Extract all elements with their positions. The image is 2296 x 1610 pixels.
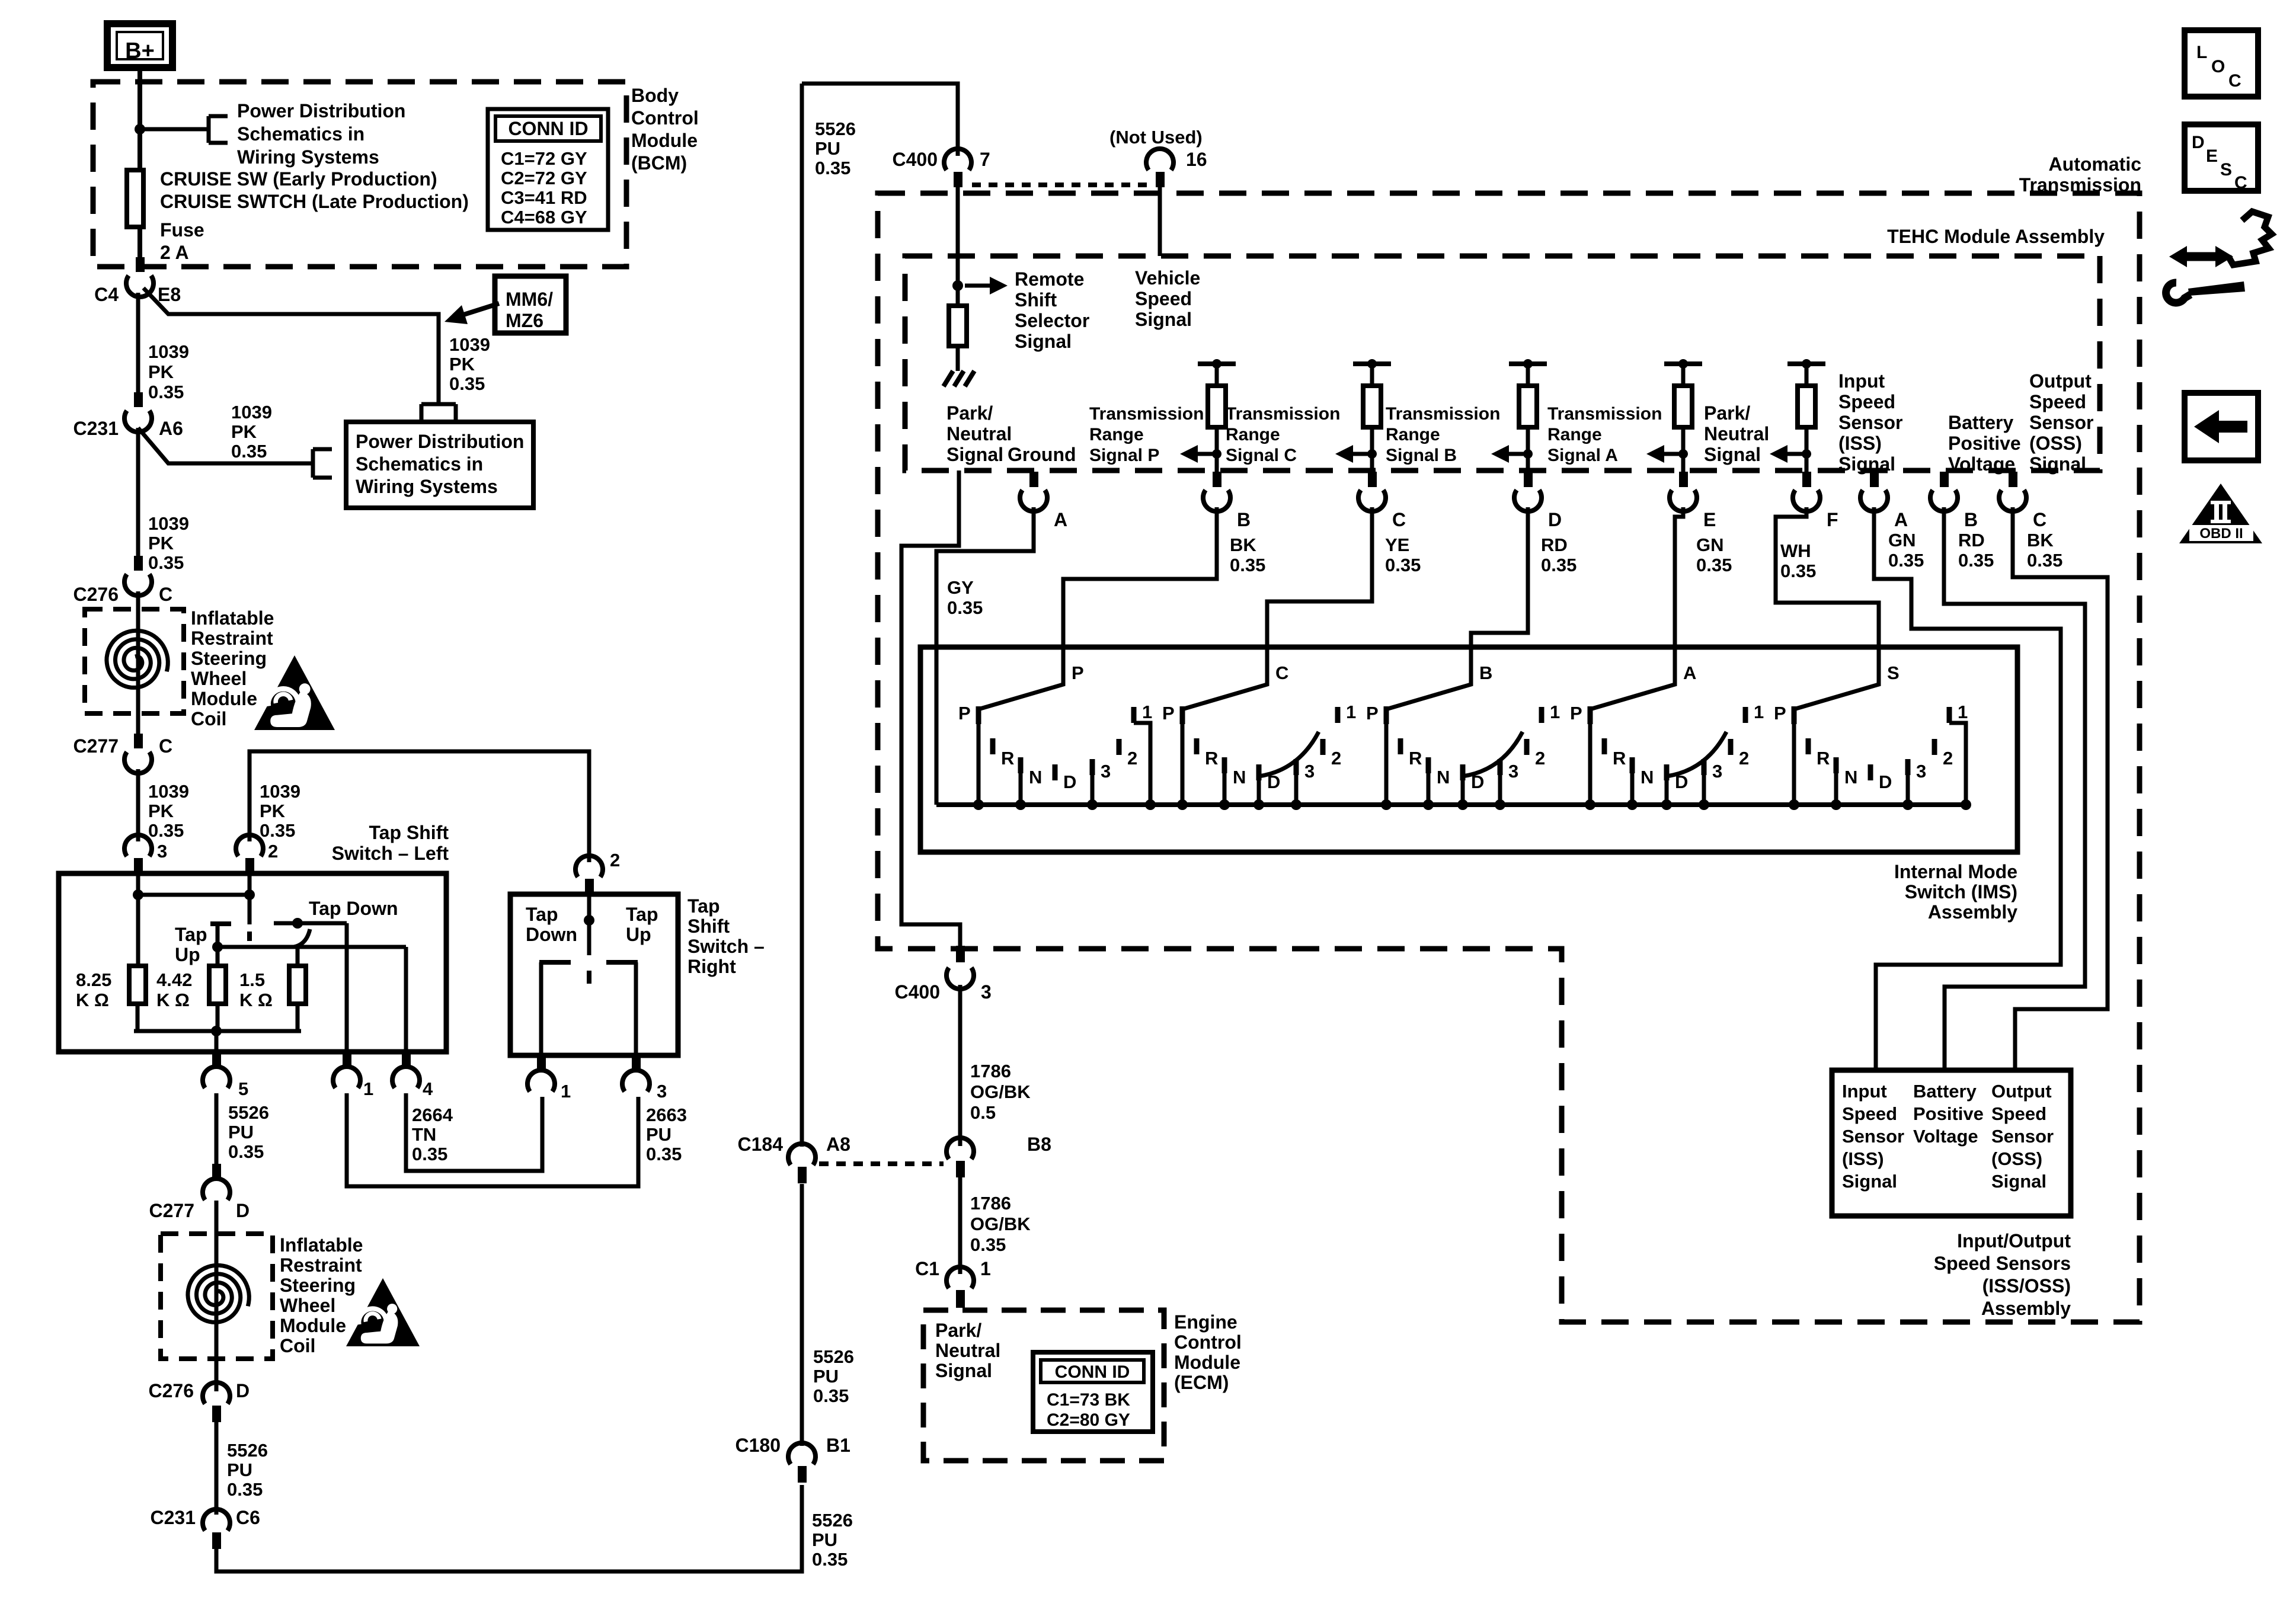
svg-text:0.35: 0.35 bbox=[2027, 550, 2062, 571]
svg-text:BK: BK bbox=[1230, 534, 1256, 555]
wire 1786 OG/BK 0.35 bbox=[958, 1177, 962, 1274]
svg-text:3: 3 bbox=[1304, 761, 1315, 782]
svg-text:E: E bbox=[1703, 509, 1716, 530]
resistor 1.5K bbox=[289, 966, 306, 1004]
svg-text:D: D bbox=[1063, 772, 1076, 792]
svg-text:Assembly: Assembly bbox=[1981, 1298, 2071, 1319]
svg-text:Shift: Shift bbox=[1015, 289, 1057, 311]
automatic transmission dashed box bbox=[878, 193, 2140, 1322]
svg-text:Up: Up bbox=[175, 944, 200, 965]
svg-text:3: 3 bbox=[1916, 761, 1926, 782]
svg-text:Tap: Tap bbox=[175, 924, 207, 945]
IMS switch group P bbox=[976, 706, 981, 724]
svg-text:Signal: Signal bbox=[1015, 331, 1072, 352]
TEHC pin E bbox=[1679, 472, 1688, 487]
svg-text:7: 7 bbox=[980, 149, 990, 170]
IMS switch group S bbox=[1792, 706, 1797, 724]
park neutral wire TEHC to C400-3 bbox=[901, 470, 960, 947]
svg-text:OG/BK: OG/BK bbox=[970, 1081, 1031, 1102]
wire left pin4 to right pin1 bbox=[406, 1093, 542, 1171]
svg-text:C1=73 BK: C1=73 BK bbox=[1047, 1390, 1130, 1410]
svg-text:R: R bbox=[1613, 748, 1626, 769]
wire YE pin C to IMS C bbox=[1267, 507, 1372, 647]
svg-text:Park/: Park/ bbox=[1704, 402, 1750, 424]
wire GN ISS to sensor box bbox=[1874, 507, 2061, 1070]
off-page pointer A6 branch bbox=[311, 449, 315, 478]
ground wire GY into IMS bbox=[936, 507, 1034, 805]
svg-text:Tap: Tap bbox=[526, 904, 558, 925]
connector pin 3 left switch bbox=[124, 835, 152, 856]
pin 5 drop bbox=[215, 1031, 219, 1052]
svg-text:Signal C: Signal C bbox=[1226, 446, 1297, 465]
svg-text:0.35: 0.35 bbox=[412, 1144, 447, 1164]
svg-text:Schematics in: Schematics in bbox=[356, 453, 483, 475]
svg-text:Right: Right bbox=[687, 956, 736, 977]
svg-text:(ISS): (ISS) bbox=[1842, 1148, 1884, 1169]
svg-text:0.35: 0.35 bbox=[1541, 555, 1576, 575]
arrow to remote shift label bbox=[990, 277, 1008, 295]
svg-text:Signal: Signal bbox=[1838, 453, 1895, 475]
wire RD pin D to IMS B bbox=[1471, 507, 1528, 647]
svg-text:1039: 1039 bbox=[148, 781, 189, 802]
dotted link pin7 to pin16 bbox=[972, 183, 1147, 187]
svg-text:D: D bbox=[236, 1200, 250, 1221]
BCM dashed box (Body Control Module) bbox=[93, 82, 626, 267]
svg-text:TEHC Module Assembly: TEHC Module Assembly bbox=[1887, 226, 2105, 247]
svg-text:1: 1 bbox=[561, 1081, 571, 1102]
connector pin 5 bbox=[212, 1052, 221, 1067]
svg-text:Transmission: Transmission bbox=[2019, 174, 2141, 196]
svg-text:C: C bbox=[2234, 173, 2247, 193]
svg-text:3: 3 bbox=[657, 1081, 667, 1102]
svg-text:Wiring Systems: Wiring Systems bbox=[237, 146, 379, 168]
svg-text:2 A: 2 A bbox=[160, 242, 189, 263]
svg-text:Automatic: Automatic bbox=[2049, 153, 2141, 175]
connector C231 pin A6 bbox=[134, 392, 143, 407]
resistor remote shift bbox=[949, 306, 967, 346]
svg-text:5526: 5526 bbox=[813, 1346, 854, 1367]
connector C4 pin E8 bbox=[136, 257, 145, 272]
svg-text:2: 2 bbox=[1331, 748, 1341, 769]
input output speed sensor box bbox=[1832, 1070, 2071, 1216]
svg-text:(ISS): (ISS) bbox=[1838, 433, 1882, 454]
wire B+ to BCM bbox=[137, 68, 142, 173]
svg-text:2663: 2663 bbox=[646, 1105, 687, 1125]
svg-text:OBD II: OBD II bbox=[2199, 526, 2243, 542]
svg-text:D: D bbox=[1879, 772, 1892, 792]
svg-text:2: 2 bbox=[610, 850, 620, 870]
svg-text:P: P bbox=[1774, 703, 1786, 724]
svg-text:5: 5 bbox=[238, 1078, 248, 1099]
vehicle data icon bbox=[2228, 212, 2272, 265]
resistor 4.42K bbox=[209, 966, 226, 1004]
wire pin5 to C277 D bbox=[215, 1093, 219, 1164]
svg-text:C180: C180 bbox=[736, 1435, 781, 1456]
svg-text:Voltage: Voltage bbox=[1913, 1126, 1978, 1147]
svg-text:2: 2 bbox=[1127, 748, 1137, 769]
svg-text:CRUISE SWTCH (Late Production): CRUISE SWTCH (Late Production) bbox=[160, 191, 469, 212]
svg-text:Output: Output bbox=[2029, 370, 2092, 392]
svg-text:R: R bbox=[1817, 748, 1830, 769]
svg-text:Up: Up bbox=[626, 924, 651, 945]
svg-text:0.35: 0.35 bbox=[228, 1141, 264, 1162]
svg-text:B: B bbox=[1237, 509, 1251, 530]
wire GN pin E to IMS A bbox=[1675, 507, 1683, 647]
svg-text:A: A bbox=[1683, 662, 1696, 683]
svg-text:PK: PK bbox=[148, 361, 174, 382]
svg-text:N: N bbox=[1844, 767, 1857, 788]
wire A6 branch to power distribution bbox=[138, 428, 313, 463]
svg-text:Module: Module bbox=[191, 688, 257, 709]
svg-text:Control: Control bbox=[1174, 1331, 1242, 1353]
svg-text:1: 1 bbox=[1142, 702, 1152, 722]
TEHC pin B battery bbox=[1940, 472, 1949, 487]
svg-text:1786: 1786 bbox=[970, 1193, 1011, 1214]
wire RD battery to sensor box bbox=[1944, 507, 2085, 1070]
SRS coil dashed box bbox=[85, 609, 184, 713]
svg-text:S: S bbox=[1887, 662, 1900, 683]
svg-text:3: 3 bbox=[981, 981, 992, 1003]
svg-text:C2=80 GY: C2=80 GY bbox=[1047, 1410, 1130, 1430]
wire circuit 2 between tap switches bbox=[250, 751, 589, 862]
contact bar right bbox=[606, 960, 638, 965]
svg-text:P: P bbox=[1072, 662, 1084, 683]
svg-text:0.35: 0.35 bbox=[947, 597, 983, 618]
TEHC pin F bbox=[1802, 472, 1811, 487]
resistor 8.25K bbox=[129, 966, 146, 1004]
svg-text:C: C bbox=[159, 584, 172, 605]
svg-text:Power Distribution: Power Distribution bbox=[237, 100, 405, 121]
svg-text:Internal Mode: Internal Mode bbox=[1894, 861, 2017, 882]
OBD II triangle icon bbox=[2179, 484, 2262, 543]
contact bar left bbox=[539, 960, 571, 965]
svg-text:C231: C231 bbox=[151, 1507, 196, 1528]
svg-text:YE: YE bbox=[1385, 534, 1409, 555]
svg-text:0.35: 0.35 bbox=[148, 820, 184, 841]
svg-text:Signal: Signal bbox=[935, 1360, 992, 1381]
svg-text:A: A bbox=[1054, 509, 1067, 530]
svg-text:C3=41 RD: C3=41 RD bbox=[501, 187, 587, 208]
svg-text:C: C bbox=[1275, 662, 1288, 683]
TEHC pin A ground bbox=[1029, 472, 1038, 487]
svg-text:Positive: Positive bbox=[1913, 1103, 1984, 1124]
resistor bottom bus bbox=[136, 1004, 140, 1031]
svg-text:C: C bbox=[1392, 509, 1406, 530]
wire pin3 into box bbox=[136, 873, 140, 966]
svg-text:K Ω: K Ω bbox=[239, 990, 273, 1010]
svg-text:Assembly: Assembly bbox=[1928, 901, 2017, 923]
svg-text:0.35: 0.35 bbox=[1385, 555, 1421, 575]
junction dot remote shift bbox=[952, 280, 963, 291]
svg-text:CRUISE SW (Early Production): CRUISE SW (Early Production) bbox=[160, 168, 437, 190]
svg-text:A8: A8 bbox=[826, 1134, 850, 1155]
TEHC pin A ISS bbox=[1870, 472, 1879, 487]
svg-text:3: 3 bbox=[1508, 761, 1518, 782]
svg-text:TN: TN bbox=[412, 1124, 436, 1145]
svg-text:PK: PK bbox=[260, 801, 286, 821]
CONN ID table BCM bbox=[488, 109, 608, 230]
svg-text:Switch – Left: Switch – Left bbox=[332, 843, 449, 864]
TEHC pin C OSS bbox=[2009, 472, 2017, 487]
svg-text:1.5: 1.5 bbox=[239, 969, 265, 990]
svg-text:Coil: Coil bbox=[191, 708, 226, 729]
svg-text:MM6/: MM6/ bbox=[506, 289, 553, 310]
svg-text:Sensor: Sensor bbox=[1842, 1126, 1904, 1147]
svg-text:Remote: Remote bbox=[1015, 268, 1084, 290]
svg-text:Steering: Steering bbox=[191, 648, 267, 669]
svg-text:Signal: Signal bbox=[1704, 444, 1761, 465]
svg-text:GN: GN bbox=[1888, 530, 1916, 550]
svg-text:0.35: 0.35 bbox=[231, 441, 267, 462]
svg-text:1039: 1039 bbox=[231, 402, 272, 422]
svg-text:A6: A6 bbox=[159, 418, 183, 439]
svg-text:PU: PU bbox=[646, 1124, 671, 1145]
IMS common bus bbox=[936, 802, 1968, 807]
svg-text:Neutral: Neutral bbox=[946, 423, 1012, 444]
svg-text:Park/: Park/ bbox=[946, 402, 993, 424]
wire BK pin B to IMS P bbox=[1063, 507, 1217, 647]
svg-text:16: 16 bbox=[1186, 149, 1207, 170]
IMS switch group C bbox=[1180, 706, 1185, 724]
svg-text:C1=72 GY: C1=72 GY bbox=[501, 148, 587, 169]
svg-text:1: 1 bbox=[1958, 702, 1968, 722]
connector C277 pin D bbox=[212, 1164, 221, 1179]
wire 1786 OG/BK 0.5 bbox=[958, 985, 962, 1146]
svg-text:5526: 5526 bbox=[812, 1510, 853, 1531]
svg-text:2: 2 bbox=[1535, 748, 1545, 769]
svg-text:0.5: 0.5 bbox=[970, 1102, 996, 1123]
svg-text:D: D bbox=[2192, 133, 2205, 152]
svg-text:N: N bbox=[1029, 767, 1042, 788]
tap down wiper curve bbox=[294, 929, 310, 947]
svg-text:0.35: 0.35 bbox=[813, 1385, 849, 1406]
svg-text:Engine: Engine bbox=[1174, 1311, 1237, 1333]
svg-text:PU: PU bbox=[812, 1529, 837, 1550]
svg-text:PK: PK bbox=[231, 421, 257, 442]
svg-text:Signal: Signal bbox=[1135, 309, 1192, 330]
battery B+ terminal box bbox=[107, 24, 172, 68]
arrow MM6/MZ6 to wire bbox=[445, 305, 468, 324]
wire WH pin F to IMS S bbox=[1776, 507, 1879, 647]
SRS clockspring coil 2 bbox=[188, 1265, 249, 1322]
svg-text:0.35: 0.35 bbox=[812, 1549, 848, 1570]
svg-text:Schematics in: Schematics in bbox=[237, 123, 364, 145]
svg-text:Signal: Signal bbox=[946, 444, 1003, 465]
wire B1 up to A8 bbox=[800, 1184, 804, 1446]
svg-text:R: R bbox=[1205, 748, 1218, 769]
svg-text:Signal P: Signal P bbox=[1089, 446, 1159, 465]
svg-text:C184: C184 bbox=[738, 1134, 784, 1155]
ground symbol bbox=[944, 371, 953, 386]
tap shift switch left box bbox=[59, 873, 446, 1052]
wire C231 down to C276 bbox=[136, 428, 140, 557]
svg-text:(ISS/OSS): (ISS/OSS) bbox=[1982, 1275, 2071, 1297]
svg-text:B: B bbox=[1479, 662, 1492, 683]
svg-text:PU: PU bbox=[227, 1459, 252, 1480]
svg-text:Park/: Park/ bbox=[935, 1320, 981, 1341]
off-page fork into power distribution box top bbox=[421, 402, 456, 406]
svg-text:P: P bbox=[1366, 703, 1379, 724]
svg-text:P: P bbox=[1162, 703, 1175, 724]
TRS P pull-up resistor bbox=[1198, 361, 1236, 366]
svg-text:Range: Range bbox=[1226, 425, 1280, 444]
svg-text:(BCM): (BCM) bbox=[631, 152, 687, 174]
TRS A pull-up resistor bbox=[1664, 361, 1702, 366]
svg-text:Input: Input bbox=[1838, 370, 1885, 392]
svg-text:0.35: 0.35 bbox=[1780, 561, 1816, 581]
connector pin 2 right switch bbox=[575, 856, 603, 877]
svg-text:1039: 1039 bbox=[148, 513, 189, 534]
svg-text:3: 3 bbox=[157, 841, 167, 862]
tap up switch gap contact bbox=[247, 932, 252, 941]
wire into coil box bbox=[136, 591, 140, 735]
svg-text:C276: C276 bbox=[73, 584, 119, 605]
pin 1 drop bbox=[345, 923, 349, 1052]
svg-text:C277: C277 bbox=[73, 735, 119, 757]
airbag caution triangle 2 bbox=[346, 1278, 420, 1346]
svg-text:Restraint: Restraint bbox=[191, 628, 273, 649]
svg-text:Module: Module bbox=[631, 130, 698, 151]
MM6/MZ6 box bbox=[495, 276, 566, 333]
svg-text:1039: 1039 bbox=[260, 781, 300, 802]
svg-text:Vehicle: Vehicle bbox=[1135, 267, 1200, 289]
svg-text:4.42: 4.42 bbox=[156, 969, 192, 990]
svg-text:C400: C400 bbox=[893, 149, 938, 170]
wire E8 branch to MM6/MZ6 corner bbox=[143, 288, 439, 405]
svg-text:R: R bbox=[1001, 748, 1014, 769]
svg-text:5526: 5526 bbox=[227, 1440, 268, 1461]
svg-text:Battery: Battery bbox=[1913, 1081, 1977, 1102]
svg-text:Neutral: Neutral bbox=[935, 1340, 1000, 1361]
svg-text:Selector: Selector bbox=[1015, 310, 1089, 331]
svg-text:RD: RD bbox=[1958, 530, 1985, 550]
svg-text:Speed: Speed bbox=[2029, 391, 2086, 412]
svg-text:3: 3 bbox=[1101, 761, 1111, 782]
ECM dashed box bbox=[923, 1310, 1164, 1461]
svg-text:Signal: Signal bbox=[1991, 1171, 2046, 1192]
svg-text:S: S bbox=[2220, 160, 2232, 180]
dashed link A8 to B8 bbox=[819, 1161, 944, 1166]
svg-text:Input/Output: Input/Output bbox=[1957, 1230, 2071, 1251]
connector C276 pin C bbox=[134, 556, 143, 571]
svg-text:0.35: 0.35 bbox=[970, 1234, 1006, 1255]
svg-text:C277: C277 bbox=[149, 1200, 195, 1221]
svg-text:1: 1 bbox=[1346, 702, 1356, 722]
svg-text:CONN ID: CONN ID bbox=[508, 118, 588, 139]
svg-text:WH: WH bbox=[1780, 540, 1811, 561]
off-page pointer power distribution bbox=[207, 116, 211, 143]
internal mode switch IMS box bbox=[920, 647, 2017, 852]
svg-text:PU: PU bbox=[228, 1122, 254, 1142]
svg-text:Signal: Signal bbox=[2029, 453, 2086, 475]
svg-text:2: 2 bbox=[1943, 748, 1953, 769]
pole wire right switch bbox=[587, 894, 591, 955]
svg-text:MZ6: MZ6 bbox=[506, 310, 543, 331]
svg-text:C4=68 GY: C4=68 GY bbox=[501, 207, 587, 228]
svg-text:C400: C400 bbox=[895, 981, 941, 1003]
svg-text:Shift: Shift bbox=[687, 916, 730, 937]
svg-text:1786: 1786 bbox=[970, 1061, 1011, 1081]
svg-text:Transmission: Transmission bbox=[1547, 404, 1662, 424]
svg-text:Steering: Steering bbox=[280, 1275, 356, 1296]
svg-text:N: N bbox=[1233, 767, 1246, 788]
svg-text:Signal A: Signal A bbox=[1547, 446, 1618, 465]
svg-text:2664: 2664 bbox=[412, 1105, 453, 1125]
svg-text:1: 1 bbox=[363, 1078, 373, 1099]
svg-text:Tap: Tap bbox=[626, 904, 658, 925]
svg-text:Speed: Speed bbox=[1991, 1103, 2046, 1124]
svg-text:PK: PK bbox=[148, 533, 174, 553]
svg-text:Voltage: Voltage bbox=[1948, 453, 2015, 475]
svg-text:5526: 5526 bbox=[815, 119, 856, 139]
wire left pin1 to right pin3 bbox=[347, 1093, 638, 1186]
svg-text:8.25: 8.25 bbox=[76, 969, 111, 990]
wire pin16 to TEHC top bbox=[1158, 186, 1162, 256]
svg-text:B: B bbox=[1964, 509, 1978, 530]
wire 1039 PK from C4 down bbox=[136, 293, 140, 392]
svg-text:Tap: Tap bbox=[687, 895, 720, 917]
svg-text:Wheel: Wheel bbox=[280, 1295, 335, 1316]
svg-text:PK: PK bbox=[449, 354, 475, 375]
svg-text:B1: B1 bbox=[826, 1435, 850, 1456]
svg-text:PK: PK bbox=[148, 801, 174, 821]
tap down contact line bbox=[274, 921, 347, 926]
svg-text:4: 4 bbox=[423, 1078, 433, 1099]
svg-text:C: C bbox=[2228, 71, 2241, 91]
svg-text:OG/BK: OG/BK bbox=[970, 1214, 1031, 1234]
svg-text:Wheel: Wheel bbox=[191, 668, 247, 689]
svg-text:Module: Module bbox=[1174, 1352, 1240, 1373]
connector pin 3 right bbox=[632, 1055, 641, 1071]
svg-text:Signal B: Signal B bbox=[1386, 446, 1457, 465]
connector pin 1 left bbox=[343, 1052, 351, 1067]
svg-text:E8: E8 bbox=[158, 284, 181, 305]
svg-text:Range: Range bbox=[1089, 425, 1144, 444]
svg-text:3: 3 bbox=[1712, 761, 1722, 782]
svg-text:Sensor: Sensor bbox=[1991, 1126, 2054, 1147]
svg-text:0.35: 0.35 bbox=[449, 373, 485, 394]
svg-text:0.35: 0.35 bbox=[148, 382, 184, 402]
svg-text:Ground: Ground bbox=[1008, 444, 1076, 465]
svg-text:2: 2 bbox=[1739, 748, 1749, 769]
airbag caution triangle bbox=[254, 655, 335, 730]
svg-text:Transmission: Transmission bbox=[1386, 404, 1500, 424]
svg-text:Body: Body bbox=[631, 85, 679, 106]
svg-text:B8: B8 bbox=[1027, 1134, 1051, 1155]
LOC icon box bbox=[2185, 30, 2258, 97]
CONN ID table ECM bbox=[1033, 1352, 1153, 1432]
wire to C180 B1 bbox=[216, 1485, 802, 1571]
svg-text:C6: C6 bbox=[236, 1507, 260, 1528]
svg-text:0.35: 0.35 bbox=[1888, 550, 1924, 571]
svg-text:Speed: Speed bbox=[1135, 288, 1192, 309]
svg-text:0.35: 0.35 bbox=[148, 552, 184, 573]
svg-text:Sensor: Sensor bbox=[2029, 412, 2093, 433]
svg-text:C2=72 GY: C2=72 GY bbox=[501, 168, 587, 188]
SRS coil dashed box 2 bbox=[161, 1234, 273, 1359]
svg-text:Speed: Speed bbox=[1838, 391, 1895, 412]
wire pin2 into box bbox=[248, 873, 252, 924]
svg-text:C4: C4 bbox=[94, 284, 119, 305]
tap up movable contact bbox=[210, 921, 231, 926]
svg-text:(ECM): (ECM) bbox=[1174, 1372, 1229, 1393]
svg-text:0.35: 0.35 bbox=[815, 158, 850, 178]
connector pin 1 right bbox=[537, 1055, 546, 1071]
TRS B pull-up resistor bbox=[1509, 361, 1547, 366]
svg-text:Battery: Battery bbox=[1948, 412, 2013, 433]
svg-text:Positive: Positive bbox=[1948, 433, 2021, 454]
link pins 3-2 bbox=[138, 893, 250, 897]
